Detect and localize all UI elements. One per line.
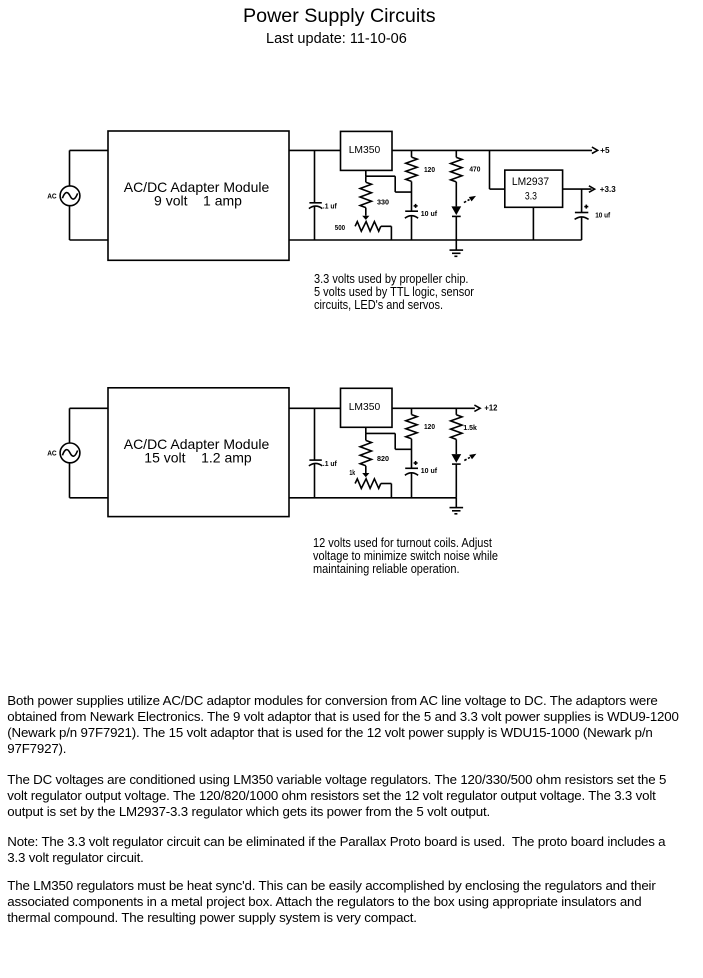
wire +5 bus <box>392 149 592 151</box>
capacitor C3 10uf <box>575 189 611 240</box>
wire LM350 adj <box>366 427 412 449</box>
node +12 <box>474 404 498 413</box>
wire LM2937 gnd pin <box>532 207 534 240</box>
AC/DC adapter module PS2 <box>108 388 289 517</box>
svg-text:10 uf: 10 uf <box>595 211 610 220</box>
resistor R2 330 <box>360 176 389 220</box>
wire <box>289 149 341 151</box>
resistor R5 120 <box>406 408 435 468</box>
svg-text:120: 120 <box>424 422 435 431</box>
capacitor C4 .1uf <box>309 408 337 498</box>
AC source V1 <box>47 186 80 206</box>
svg-text:120: 120 <box>424 165 435 174</box>
wire LM350 adj <box>366 170 412 192</box>
ground <box>450 498 464 514</box>
svg-text:LM2937: LM2937 <box>512 176 549 188</box>
wire <box>69 463 71 498</box>
potentiometer R3 500 <box>335 222 392 240</box>
wire <box>490 150 505 189</box>
AC/DC adapter module PS1 <box>108 131 289 260</box>
resistor R6 820 <box>360 433 389 477</box>
svg-text:1k: 1k <box>349 468 355 477</box>
svg-text:15 volt 1.2 amp: 15 volt 1.2 amp <box>144 450 252 466</box>
regulator U3 LM350 <box>341 388 393 427</box>
svg-text:3.3: 3.3 <box>525 191 537 203</box>
wire <box>70 239 109 241</box>
resistor R4 470 <box>451 150 481 206</box>
resistor R1 120 <box>406 150 435 211</box>
wire +12 bus <box>392 407 475 409</box>
wire <box>289 497 456 499</box>
resistor R8 1.5k <box>451 408 478 454</box>
ground <box>450 240 464 256</box>
wire <box>289 407 341 409</box>
svg-text:LM350: LM350 <box>349 401 381 413</box>
potentiometer R7 1k <box>349 468 391 498</box>
node +5 <box>592 146 610 155</box>
wire <box>69 150 71 186</box>
wire <box>70 497 109 499</box>
wire <box>70 149 109 151</box>
svg-text:10 uf: 10 uf <box>421 209 438 218</box>
svg-text:500: 500 <box>335 223 345 232</box>
svg-text:AC: AC <box>47 191 57 200</box>
svg-text:+5: +5 <box>600 146 610 155</box>
wire <box>289 239 582 241</box>
svg-text:LM350: LM350 <box>349 144 381 156</box>
AC source V2 <box>47 443 80 463</box>
LED D1 <box>451 196 476 240</box>
LED D2 <box>451 454 476 498</box>
svg-text:AC: AC <box>47 449 57 458</box>
regulator U2 LM2937 <box>505 170 563 207</box>
svg-text:1.5k: 1.5k <box>463 423 477 432</box>
wire +3.3 out <box>563 188 592 190</box>
svg-text:+12: +12 <box>484 404 498 413</box>
capacitor C5 10uf <box>405 461 438 498</box>
svg-text:+3.3: +3.3 <box>600 185 616 194</box>
capacitor C2 10uf <box>405 204 438 240</box>
capacitor C1 .1uf <box>309 150 337 240</box>
svg-text:9 volt 1 amp: 9 volt 1 amp <box>154 193 242 209</box>
regulator U1 LM350 <box>341 131 393 170</box>
svg-text:.1 uf: .1 uf <box>323 202 337 211</box>
wire <box>69 206 71 240</box>
svg-text:470: 470 <box>469 165 480 174</box>
svg-text:820: 820 <box>377 454 389 463</box>
svg-text:10 uf: 10 uf <box>421 466 438 475</box>
svg-text:330: 330 <box>377 198 389 207</box>
svg-text:.1 uf: .1 uf <box>323 459 337 468</box>
wire <box>69 408 71 443</box>
wire <box>70 407 109 409</box>
node +3.3 <box>589 185 616 194</box>
